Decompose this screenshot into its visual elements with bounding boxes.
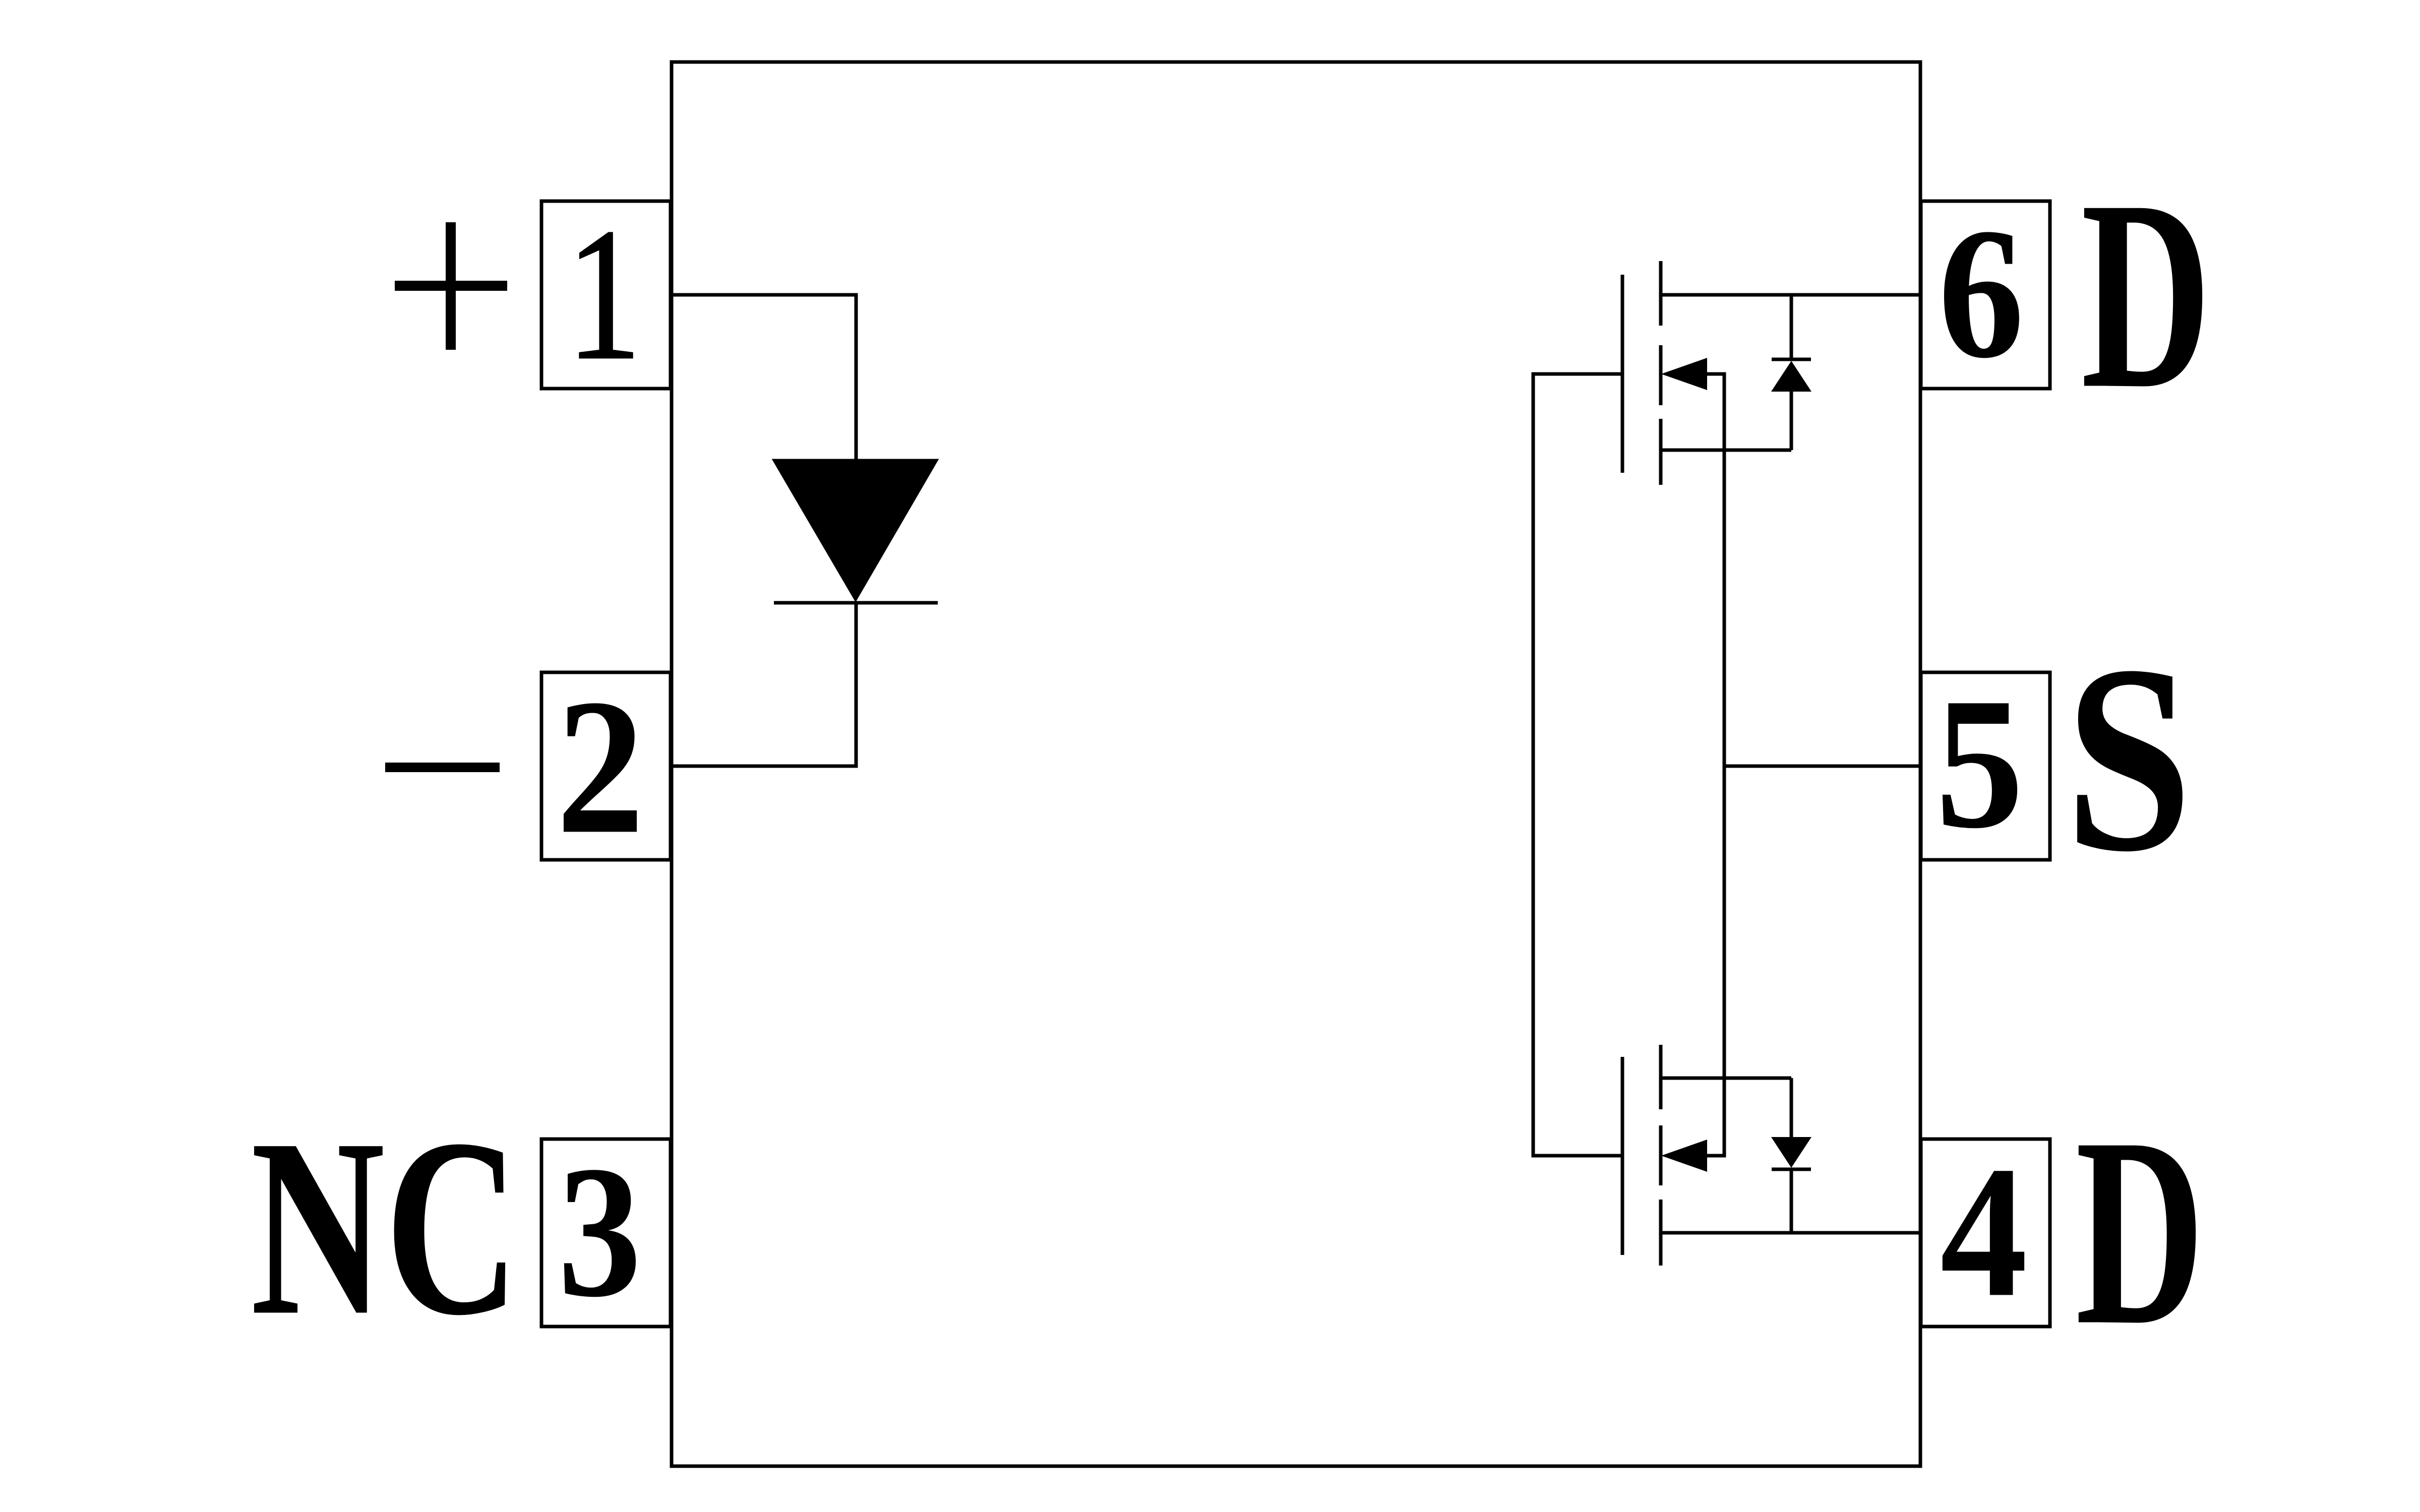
transistor Q1 channel segment drain <box>1659 261 1663 326</box>
svg-text:D: D <box>2076 1082 2205 1381</box>
label - minus bar <box>385 763 500 772</box>
diode Q2 body cathode bar <box>1772 1168 1811 1171</box>
transistor Q1 body arrow <box>1661 358 1707 390</box>
wire gate bus Q1-Q2 <box>1533 374 1622 1156</box>
LED D1 triangle <box>774 460 937 600</box>
pin 2 pad <box>541 672 671 860</box>
svg-text:S: S <box>2065 609 2192 907</box>
svg-text:NC: NC <box>251 1086 519 1368</box>
svg-text:5: 5 <box>1935 660 2024 868</box>
wire Q1 body diode anode <box>1790 295 1793 358</box>
wire Q1 drain to pin6 <box>1661 293 1921 297</box>
LED D1 cathode bar <box>774 601 938 605</box>
wire source bus to pin5 <box>1724 765 1921 768</box>
transistor Q2 channel segment body <box>1659 1125 1663 1185</box>
pin 1 pad <box>541 201 671 389</box>
wire Q1 body diode to source <box>1790 392 1793 450</box>
transistor Q2 channel segment drain <box>1659 1200 1663 1266</box>
wire Q2 body diode to drain <box>1790 1169 1793 1233</box>
svg-text:4: 4 <box>1940 1128 2027 1337</box>
pin 6 pad <box>1921 201 2050 389</box>
wire LED cathode to pin2 <box>671 603 856 766</box>
diode Q2 body triangle <box>1771 1137 1811 1168</box>
svg-text:2: 2 <box>556 659 644 874</box>
wire pin1 to LED anode <box>671 295 856 460</box>
label + plus horizontal bar <box>395 281 507 291</box>
svg-text:3: 3 <box>558 1127 641 1336</box>
transistor Q1 gate bar <box>1621 275 1624 473</box>
pin 5 pad <box>1921 672 2050 860</box>
diode Q1 body cathode bar <box>1772 358 1811 361</box>
svg-text:D: D <box>2081 144 2211 445</box>
pin 4 pad <box>1921 1139 2050 1327</box>
pin 3 pad <box>541 1139 671 1327</box>
transistor Q2 channel segment source <box>1659 1045 1663 1109</box>
diode Q1 body triangle <box>1771 361 1811 392</box>
svg-text:6: 6 <box>1938 190 2024 397</box>
transistor Q1 channel segment body <box>1659 345 1663 405</box>
IC package outline U1 <box>672 62 1920 1466</box>
transistor Q2 body arrow <box>1661 1140 1707 1172</box>
wire body-source bus <box>1707 374 1724 1156</box>
wire Q2 source <box>1661 1077 1791 1080</box>
wire Q2 body diode anode <box>1790 1078 1793 1137</box>
wire Q1 source <box>1661 449 1791 452</box>
wire Q2 drain to pin4 <box>1661 1231 1921 1235</box>
svg-text:1: 1 <box>566 190 641 399</box>
transistor Q2 gate bar <box>1621 1057 1624 1255</box>
label + plus vertical bar <box>446 222 456 350</box>
transistor Q1 channel segment source <box>1659 419 1663 485</box>
